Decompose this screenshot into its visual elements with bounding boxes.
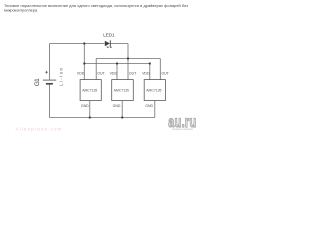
svg-text:AMC7135: AMC7135 <box>114 89 129 93</box>
svg-text:VDD: VDD <box>142 72 150 76</box>
svg-text:VDD: VDD <box>110 72 118 76</box>
svg-text:микроконтроллера.: микроконтроллера. <box>4 9 38 13</box>
wire: battery negative vertical <box>49 84 51 117</box>
junction dot VDD rail / IC3 VDD <box>149 62 151 64</box>
wire: IC1 VDD pin vertical from top rail <box>83 44 85 80</box>
wire: IC3 GND pin vertical <box>154 101 156 118</box>
wire: IC2 VDD pin vertical <box>116 64 118 80</box>
LED1 diode triangle <box>105 41 110 47</box>
wire: vertical from LED corner through OUT rail to IC2 OUT pin <box>127 44 129 80</box>
svg-text:Aliexpress.com: Aliexpress.com <box>16 126 62 131</box>
junction dot ground rail / IC1 GND <box>89 116 91 118</box>
svg-text:OUT: OUT <box>129 72 137 76</box>
svg-text:AMC7135: AMC7135 <box>146 89 161 93</box>
wire: LED cathode to corner over IC2 OUT <box>110 43 128 45</box>
svg-text:GND: GND <box>145 104 153 108</box>
svg-text:LED1: LED1 <box>103 33 115 38</box>
wire: VDD rail <box>84 63 150 65</box>
svg-text:GND: GND <box>81 104 89 108</box>
svg-text:G1: G1 <box>34 78 41 86</box>
svg-text:OUT: OUT <box>97 72 105 76</box>
wire: IC2 GND pin vertical <box>121 101 123 118</box>
svg-text:Li-Ion: Li-Ion <box>58 67 63 86</box>
battery G1 negative plate <box>46 83 53 85</box>
op-amp U2 AMC7135 box <box>112 80 134 101</box>
svg-text:AMC7135: AMC7135 <box>82 89 97 93</box>
battery plus sign <box>45 71 48 74</box>
wire: IC3 VDD pin vertical <box>149 64 151 80</box>
wire: bottom ground rail <box>50 117 155 119</box>
wire: IC3 OUT pin vertical <box>159 59 161 80</box>
junction dot top rail / IC1 VDD <box>83 42 85 44</box>
op-amp U3 AMC7135 box <box>144 80 165 101</box>
wire: battery positive vertical <box>49 44 51 80</box>
junction dot VDD rail / IC1 VDD <box>83 62 85 64</box>
wire: IC1 OUT pin vertical <box>95 59 97 80</box>
op-amp U1 AMC7135 box <box>80 80 101 101</box>
wire: top rail (battery + to LED anode) <box>50 43 105 45</box>
wire: IC1 GND pin vertical <box>89 101 91 118</box>
svg-text:VDD: VDD <box>77 72 85 76</box>
LED1 light arrows <box>106 46 111 48</box>
junction dot OUT rail / IC2 OUT <box>127 57 129 59</box>
LED1 cathode bar <box>109 40 111 46</box>
junction dot VDD rail / IC2 VDD <box>116 62 118 64</box>
svg-text:Типовое параллельное включение: Типовое параллельное включение для одног… <box>4 4 188 8</box>
svg-text:OUT: OUT <box>161 72 169 76</box>
battery G1 positive plate <box>43 79 56 81</box>
svg-text:интернет-аукцион: интернет-аукцион <box>172 128 194 131</box>
svg-text:GND: GND <box>113 104 121 108</box>
wire: OUT rail <box>96 58 160 60</box>
junction dot ground rail / IC2 GND <box>121 116 123 118</box>
